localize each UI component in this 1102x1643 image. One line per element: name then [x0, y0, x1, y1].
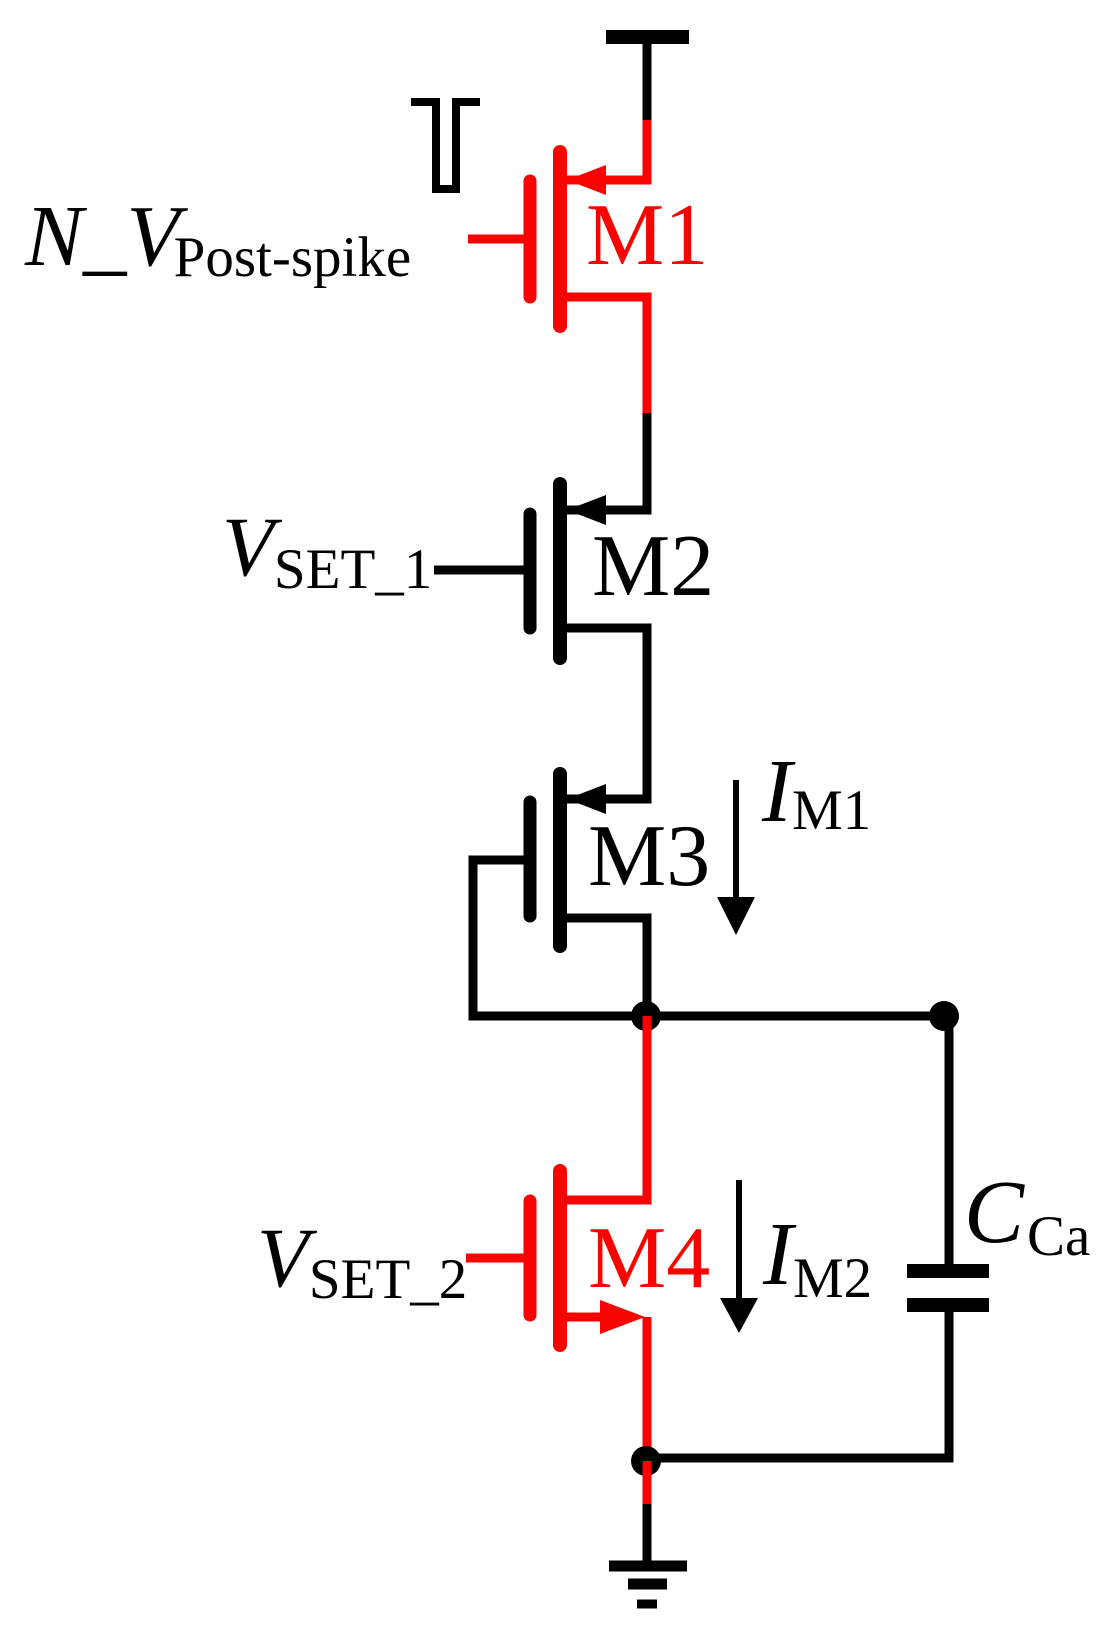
capacitor C_Ca bottom wire to ground node — [646, 1312, 949, 1458]
transistor M3 source arrow — [567, 784, 606, 814]
transistor M1 source arrow — [567, 165, 606, 195]
capacitor C_Ca bottom plate — [907, 1298, 989, 1312]
transistor M1 channel bar — [553, 152, 567, 326]
svg-text:CCa: CCa — [964, 1163, 1090, 1268]
wire VDD stem black — [643, 44, 652, 121]
transistor M2 drain terminal + wire down to M3 — [567, 628, 647, 799]
transistor M2 gate wire — [434, 566, 527, 575]
transistor M4 gate bar — [524, 1201, 537, 1315]
wire M1 drain to M2 source (black) — [567, 413, 647, 510]
svg-text:N_VPost-spike: N_VPost-spike — [24, 187, 411, 289]
svg-text:VSET_1: VSET_1 — [222, 500, 432, 601]
transistor M4 channel bar — [553, 1171, 567, 1345]
power supply VDD bar — [606, 30, 689, 44]
capacitor C_Ca top plate — [907, 1264, 989, 1278]
transistor M2 channel bar — [553, 484, 567, 658]
current arrow I_M1 — [733, 780, 739, 903]
transistor M3 gate bar — [524, 802, 537, 916]
transistor M1 (red PMOS) gate wire — [468, 235, 527, 244]
ground symbol bar 3 — [637, 1600, 657, 1609]
transistor M4 (red NMOS) gate wire — [466, 1254, 527, 1263]
transistor M2 gate bar — [524, 514, 537, 628]
svg-text:IM2: IM2 — [762, 1205, 872, 1310]
wire VDD stem red to M1 source — [567, 120, 647, 180]
transistor M1 drain terminal + wire down — [567, 297, 647, 414]
wire ground node down red — [643, 1461, 652, 1505]
svg-text:M1: M1 — [586, 187, 708, 284]
wire node A down to M4 (red) — [567, 1016, 647, 1200]
ground node junction dot — [631, 1446, 661, 1476]
svg-text:M2: M2 — [592, 518, 714, 615]
ground symbol bar 1 — [609, 1561, 687, 1572]
transistor M4 source terminal with arrow pointing right — [567, 1313, 620, 1322]
ground symbol bar 2 — [628, 1579, 667, 1590]
transistor M1 gate bar — [524, 181, 537, 297]
wire ground stem black — [643, 1504, 652, 1561]
transistor M3 diode-connect gate loop wire — [473, 860, 640, 1016]
current arrow I_M2 — [736, 1180, 742, 1300]
svg-text:IM1: IM1 — [761, 742, 871, 842]
wire M4 source down to ground node (red) — [643, 1317, 652, 1462]
transistor M3 drain terminal + wire down to node — [567, 918, 647, 1016]
capacitor C_Ca top wire — [945, 1016, 954, 1264]
node A junction dot — [631, 1001, 661, 1031]
transistor M3 channel bar — [553, 774, 567, 946]
svg-text:VSET_2: VSET_2 — [257, 1211, 467, 1311]
wire node A to capacitor top — [646, 1012, 944, 1021]
svg-text:M4: M4 — [588, 1210, 710, 1307]
svg-text:M3: M3 — [588, 808, 710, 905]
pulse symbol (negative pulse waveform) — [411, 102, 480, 189]
node B junction dot — [929, 1001, 959, 1031]
transistor M2 source arrow — [567, 495, 606, 525]
